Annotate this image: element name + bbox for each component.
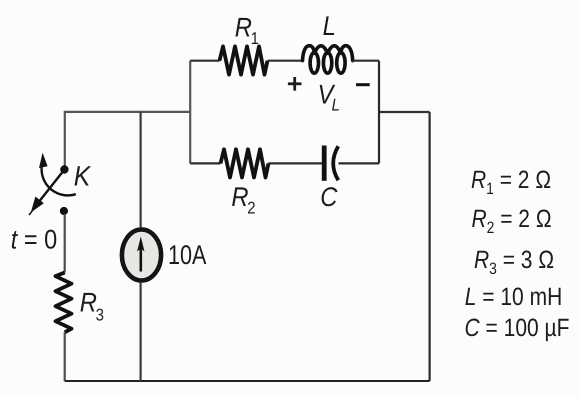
wire: current source column top bbox=[140, 112, 142, 227]
node: switch bottom terminal bbox=[60, 207, 68, 215]
svg-text:C = 100 µF: C = 100 µF bbox=[465, 314, 570, 342]
label VL bbox=[318, 80, 340, 115]
wire: bottom rail bbox=[65, 380, 430, 382]
wire: parallel box right edge bbox=[378, 61, 380, 164]
svg-text:R2 = 2 Ω: R2 = 2 Ω bbox=[471, 205, 551, 237]
capacitor C left plate bbox=[322, 146, 327, 181]
wire: top branch right segment bbox=[353, 60, 380, 62]
wire: switch to R3 bbox=[64, 214, 66, 273]
wire: current source column bottom bbox=[140, 283, 142, 381]
current source 10A bbox=[122, 230, 161, 281]
label - (VL polarity) bbox=[356, 83, 370, 86]
svg-text:L: L bbox=[323, 11, 336, 41]
svg-text:L: L bbox=[332, 96, 340, 115]
label R2 bbox=[231, 182, 255, 218]
svg-text:R: R bbox=[80, 288, 97, 318]
node: switch top terminal bbox=[60, 165, 68, 173]
svg-text:R3 = 3 Ω: R3 = 3 Ω bbox=[474, 246, 554, 278]
svg-text:R: R bbox=[231, 182, 248, 212]
capacitor C right plate (curved) bbox=[333, 146, 338, 180]
wire: right column to parallel box bbox=[379, 111, 430, 113]
svg-text:2: 2 bbox=[247, 199, 255, 218]
svg-text:K: K bbox=[74, 160, 92, 191]
wire: bottom branch left segment bbox=[190, 162, 220, 164]
wire: bottom branch between R2 and C bbox=[269, 162, 323, 164]
switch K motion arc bbox=[39, 153, 76, 196]
wire: top branch left segment bbox=[190, 60, 219, 62]
svg-text:t = 0: t = 0 bbox=[11, 225, 57, 255]
svg-text:C: C bbox=[320, 182, 338, 212]
wire: middle horizontal from left column to box bbox=[65, 111, 191, 113]
label + (VL polarity) bbox=[288, 77, 302, 91]
resistor R2 bbox=[221, 149, 269, 177]
svg-text:L = 10 mH: L = 10 mH bbox=[465, 283, 562, 311]
svg-text:1: 1 bbox=[251, 29, 259, 48]
resistor R1 bbox=[220, 46, 268, 74]
label R1 bbox=[235, 13, 259, 49]
label R3 bbox=[80, 288, 104, 325]
svg-text:R: R bbox=[235, 13, 252, 43]
value list bbox=[465, 166, 570, 342]
wire: bottom branch right segment bbox=[339, 162, 380, 164]
svg-text:10A: 10A bbox=[168, 240, 206, 270]
wire: left column top bbox=[64, 111, 66, 168]
resistor R3 bbox=[56, 273, 72, 333]
wire: right column bbox=[429, 112, 431, 381]
svg-text:R1 = 2 Ω: R1 = 2 Ω bbox=[471, 166, 551, 198]
svg-text:3: 3 bbox=[96, 306, 104, 325]
inductor L bbox=[303, 46, 353, 74]
wire: R3 to bottom rail bbox=[64, 332, 66, 381]
wire: top branch between R1 and L bbox=[268, 60, 303, 62]
switch K blade bbox=[29, 172, 63, 215]
wire: parallel box left edge bbox=[189, 61, 191, 164]
